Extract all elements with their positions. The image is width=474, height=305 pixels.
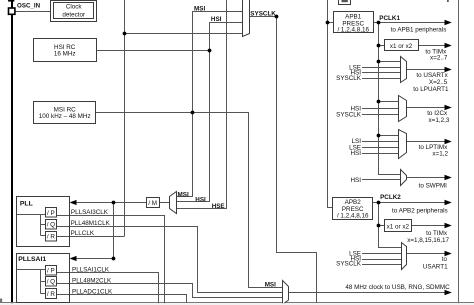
svg-text:to: to [442, 256, 448, 263]
svg-text:SYSCLK: SYSCLK [250, 11, 276, 18]
svg-text:x=1,2,3: x=1,2,3 [429, 117, 450, 124]
svg-text:APB2: APB2 [345, 199, 362, 206]
svg-text:SYSCLK: SYSCLK [336, 112, 362, 119]
svg-text:PLLSAI1: PLLSAI1 [18, 256, 46, 263]
svg-text:OSC_IN: OSC_IN [17, 2, 41, 9]
svg-text:USART1: USART1 [423, 264, 448, 271]
svg-text:to SWPMI: to SWPMI [419, 182, 448, 189]
svg-text:x1 or x2: x1 or x2 [390, 43, 413, 50]
svg-text:HSE: HSE [212, 203, 225, 210]
svg-text:16 MHz: 16 MHz [54, 51, 76, 58]
svg-text:/ Q: / Q [47, 222, 55, 229]
svg-text:x=1,8,15,16,17: x=1,8,15,16,17 [407, 237, 449, 244]
svg-text:PLL48M1CLK: PLL48M1CLK [71, 220, 111, 227]
svg-text:SYSCLK: SYSCLK [336, 75, 362, 82]
svg-text:PLL48M2CLK: PLL48M2CLK [72, 277, 112, 284]
svg-text:X=2..5: X=2..5 [429, 79, 448, 86]
svg-text:/ 1,2,4,8,16: / 1,2,4,8,16 [337, 213, 369, 220]
svg-text:/ M: / M [148, 200, 157, 207]
svg-text:100 kHz – 48 MHz: 100 kHz – 48 MHz [39, 113, 91, 120]
svg-text:x=2..7: x=2..7 [430, 55, 448, 62]
svg-text:/ R: / R [47, 234, 55, 241]
svg-text:/ R: / R [47, 291, 55, 298]
svg-text:to APB2 peripherals: to APB2 peripherals [392, 208, 448, 215]
svg-text:HSI: HSI [351, 150, 362, 157]
svg-text:Clock: Clock [66, 4, 83, 11]
svg-text:PCLK1: PCLK1 [379, 15, 400, 22]
svg-text:PLL: PLL [20, 201, 33, 208]
svg-text:x1 or x2: x1 or x2 [387, 223, 410, 230]
svg-text:PLLADC1CLK: PLLADC1CLK [72, 289, 113, 296]
svg-text:detector: detector [62, 11, 85, 18]
svg-text:MSI: MSI [265, 282, 276, 289]
svg-text:SYSCLK: SYSCLK [336, 260, 362, 267]
svg-text:/ Q: / Q [47, 279, 55, 286]
svg-text:to APB1 peripherals: to APB1 peripherals [391, 27, 447, 34]
svg-text:48 MHz clock to USB, RNG, SDMM: 48 MHz clock to USB, RNG, SDMMC [345, 284, 450, 291]
svg-text:PLLCLK: PLLCLK [71, 230, 95, 237]
svg-text:HSI: HSI [351, 177, 362, 184]
svg-text:to USARTx: to USARTx [416, 72, 448, 79]
svg-text:to I2Cx: to I2Cx [427, 110, 448, 117]
svg-text:MSI: MSI [178, 191, 189, 198]
svg-text:HSI: HSI [195, 197, 206, 204]
svg-text:PLLSAI1CLK: PLLSAI1CLK [72, 266, 110, 273]
svg-text:PCLK2: PCLK2 [380, 194, 401, 201]
svg-text:/ P: / P [47, 210, 55, 217]
svg-text:x=1,2: x=1,2 [432, 150, 448, 157]
svg-text:PLLSAI3CLK: PLLSAI3CLK [71, 209, 109, 216]
svg-text:HSI: HSI [211, 16, 222, 23]
svg-text:/ 1,2,4,8,16: / 1,2,4,8,16 [337, 27, 369, 34]
svg-text:to LPUART1: to LPUART1 [413, 86, 449, 93]
svg-text:/ P: / P [47, 267, 55, 274]
svg-text:MSI: MSI [194, 6, 205, 13]
